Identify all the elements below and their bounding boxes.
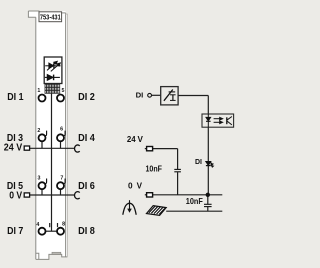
svg-text:V: V: [138, 134, 144, 144]
svg-text:10nF: 10nF: [186, 196, 203, 206]
svg-text:DI 1: DI 1: [7, 92, 24, 104]
svg-text:24: 24: [127, 134, 136, 144]
svg-text:V: V: [137, 181, 143, 191]
svg-text:10nF: 10nF: [146, 164, 163, 174]
svg-text:8: 8: [62, 222, 65, 228]
svg-text:6: 6: [60, 127, 63, 133]
svg-text:5: 5: [62, 88, 65, 94]
svg-text:DI 7: DI 7: [7, 225, 23, 237]
svg-text:DI 4: DI 4: [78, 133, 95, 145]
svg-text:DI 8: DI 8: [78, 226, 95, 238]
svg-text:7: 7: [60, 175, 63, 181]
svg-text:3: 3: [38, 175, 41, 181]
svg-text:4: 4: [36, 222, 39, 228]
svg-text:24 V: 24 V: [4, 142, 23, 154]
svg-text:0 V: 0 V: [9, 189, 23, 201]
svg-text:DI 2: DI 2: [78, 92, 95, 104]
svg-text:753-431: 753-431: [40, 13, 61, 22]
svg-text:1: 1: [37, 88, 40, 94]
svg-text:0: 0: [128, 181, 133, 191]
svg-text:DI 6: DI 6: [78, 181, 95, 193]
svg-text:DI: DI: [195, 159, 202, 166]
svg-text:DI: DI: [136, 90, 144, 99]
svg-text:2: 2: [37, 128, 40, 134]
